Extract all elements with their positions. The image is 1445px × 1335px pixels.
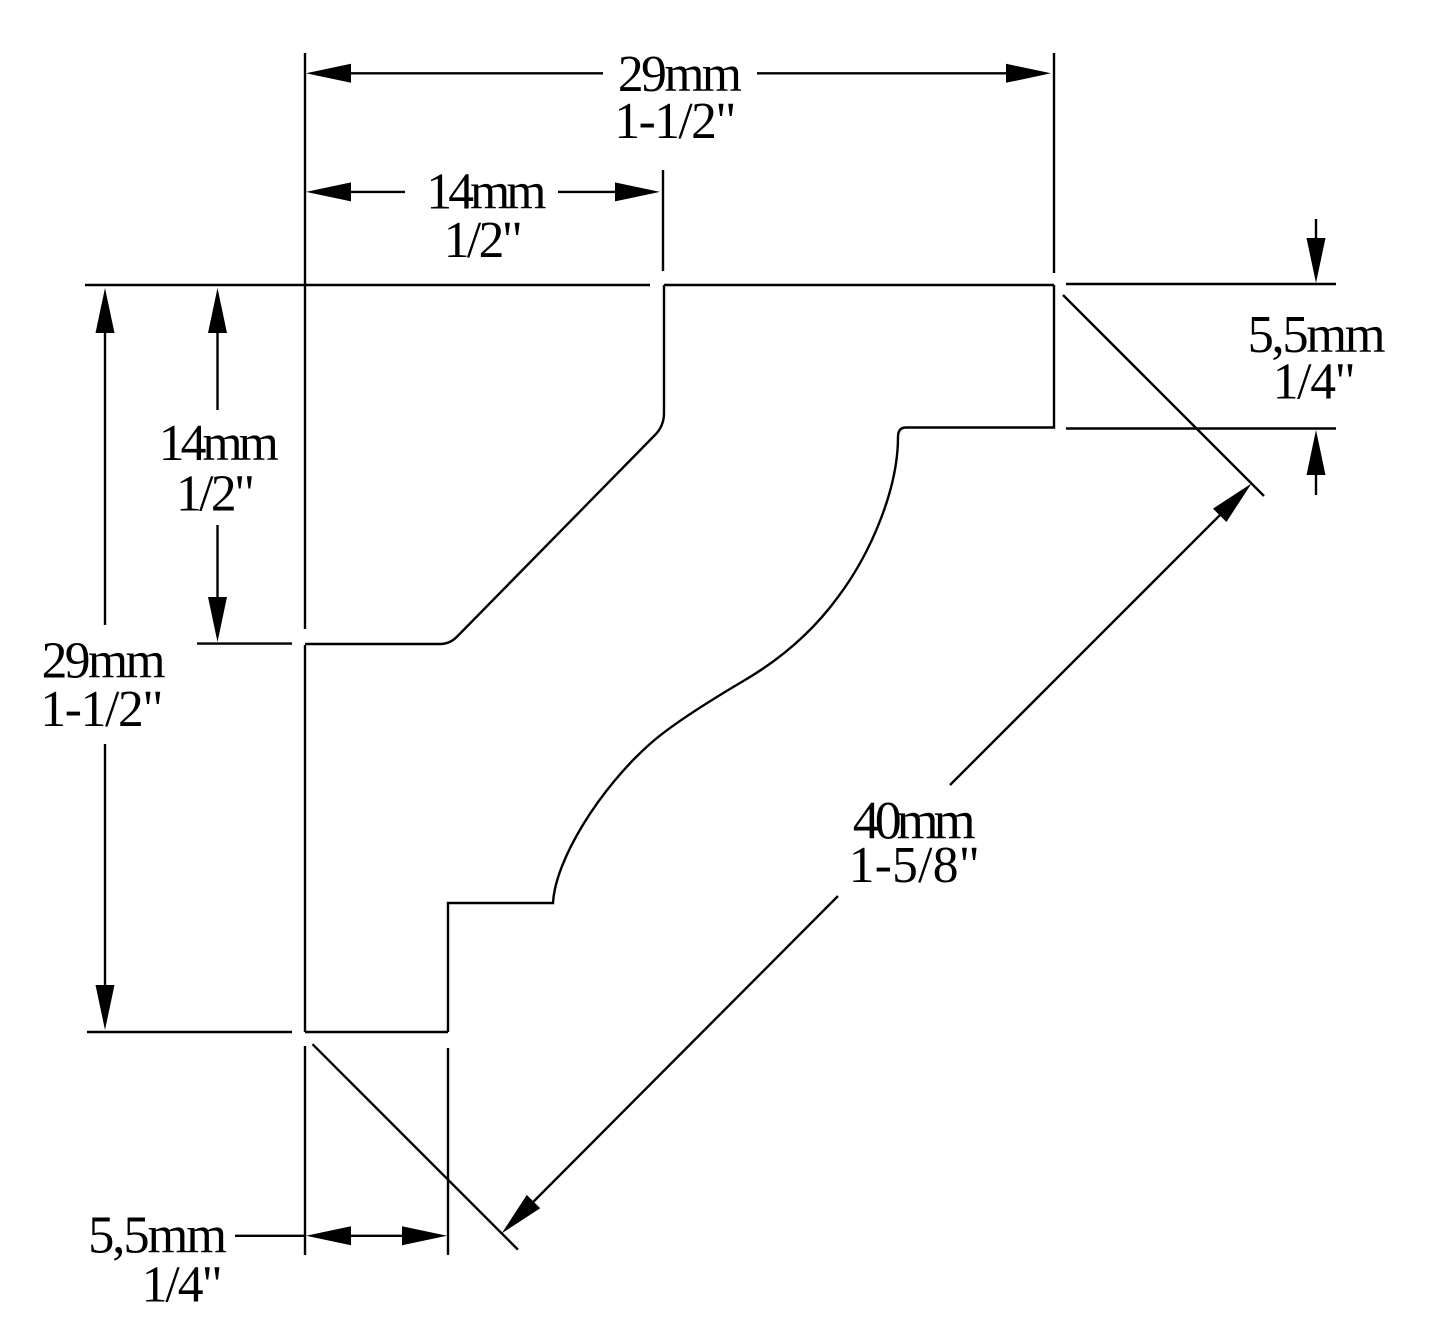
arrowhead 40mm lower xyxy=(502,1195,541,1234)
svg-text:1/2": 1/2" xyxy=(176,466,255,523)
extension line right of top 29mm dim xyxy=(1053,53,1055,273)
arrowhead bottom 5,5mm left xyxy=(306,1226,351,1245)
extension line right of bottom 5,5mm dim xyxy=(447,1048,449,1255)
arrowhead top 29mm right xyxy=(1006,64,1051,83)
arrowhead top 14mm left xyxy=(306,182,351,201)
left 14mm dimension line xyxy=(216,333,218,410)
extension line lower of 40mm dim xyxy=(313,1044,518,1249)
arrowhead left 14mm down xyxy=(208,597,227,642)
extension line lower of right 5,5mm dim xyxy=(1066,427,1336,429)
arrowhead left 29mm up xyxy=(96,288,115,333)
svg-text:1/2": 1/2" xyxy=(444,212,523,269)
arrowhead bottom 5,5mm right xyxy=(402,1226,447,1245)
extension line left of bottom 5,5mm dim xyxy=(304,1046,306,1255)
svg-text:1-5/8": 1-5/8" xyxy=(849,837,980,894)
top 14mm dimension line xyxy=(351,191,405,193)
molding bottom edge xyxy=(305,1031,448,1033)
svg-text:14mm: 14mm xyxy=(159,415,279,472)
ceiling contact face of molding (top edge right segment) xyxy=(664,284,1054,286)
arrowhead left 29mm down xyxy=(96,985,115,1030)
right 5,5mm dimension arrow shafts xyxy=(1315,219,1317,239)
svg-text:1-1/2": 1-1/2" xyxy=(614,93,736,150)
top 29mm dimension line xyxy=(351,72,603,74)
left 29mm dimension line xyxy=(104,333,106,625)
arrowhead right 5,5mm up xyxy=(1307,430,1326,475)
wall line lower segment (wall contact face of molding) xyxy=(304,645,306,1032)
ceiling line left segment xyxy=(85,284,650,286)
svg-text:1/4": 1/4" xyxy=(1273,354,1356,411)
40mm dimension line segments xyxy=(950,515,1220,785)
bottom 5,5mm leader and dimension line xyxy=(235,1235,305,1237)
extension line upper of right 5,5mm dim xyxy=(1066,283,1336,285)
extension line bottom of left 29mm dim xyxy=(87,1031,292,1033)
molding back notch: horizontal, chamfer, vertical xyxy=(305,285,664,644)
extension line right of top 14mm dim xyxy=(662,170,664,271)
svg-text:1/4": 1/4" xyxy=(142,1257,223,1314)
extension line upper of 40mm dim xyxy=(1063,295,1264,496)
wall line upper segment (also extension for top dims) xyxy=(304,53,306,629)
molding outline: right face, step, ogee curve, lower step xyxy=(448,285,1054,1032)
svg-text:1-1/2": 1-1/2" xyxy=(40,681,163,738)
arrowhead right 5,5mm down xyxy=(1307,238,1326,283)
arrowhead top 29mm left xyxy=(306,64,351,83)
arrowhead top 14mm right xyxy=(615,182,660,201)
extension line bottom of left 14mm dim xyxy=(197,642,292,644)
arrowhead 40mm upper xyxy=(1213,484,1252,523)
arrowhead left 14mm up xyxy=(208,288,227,333)
